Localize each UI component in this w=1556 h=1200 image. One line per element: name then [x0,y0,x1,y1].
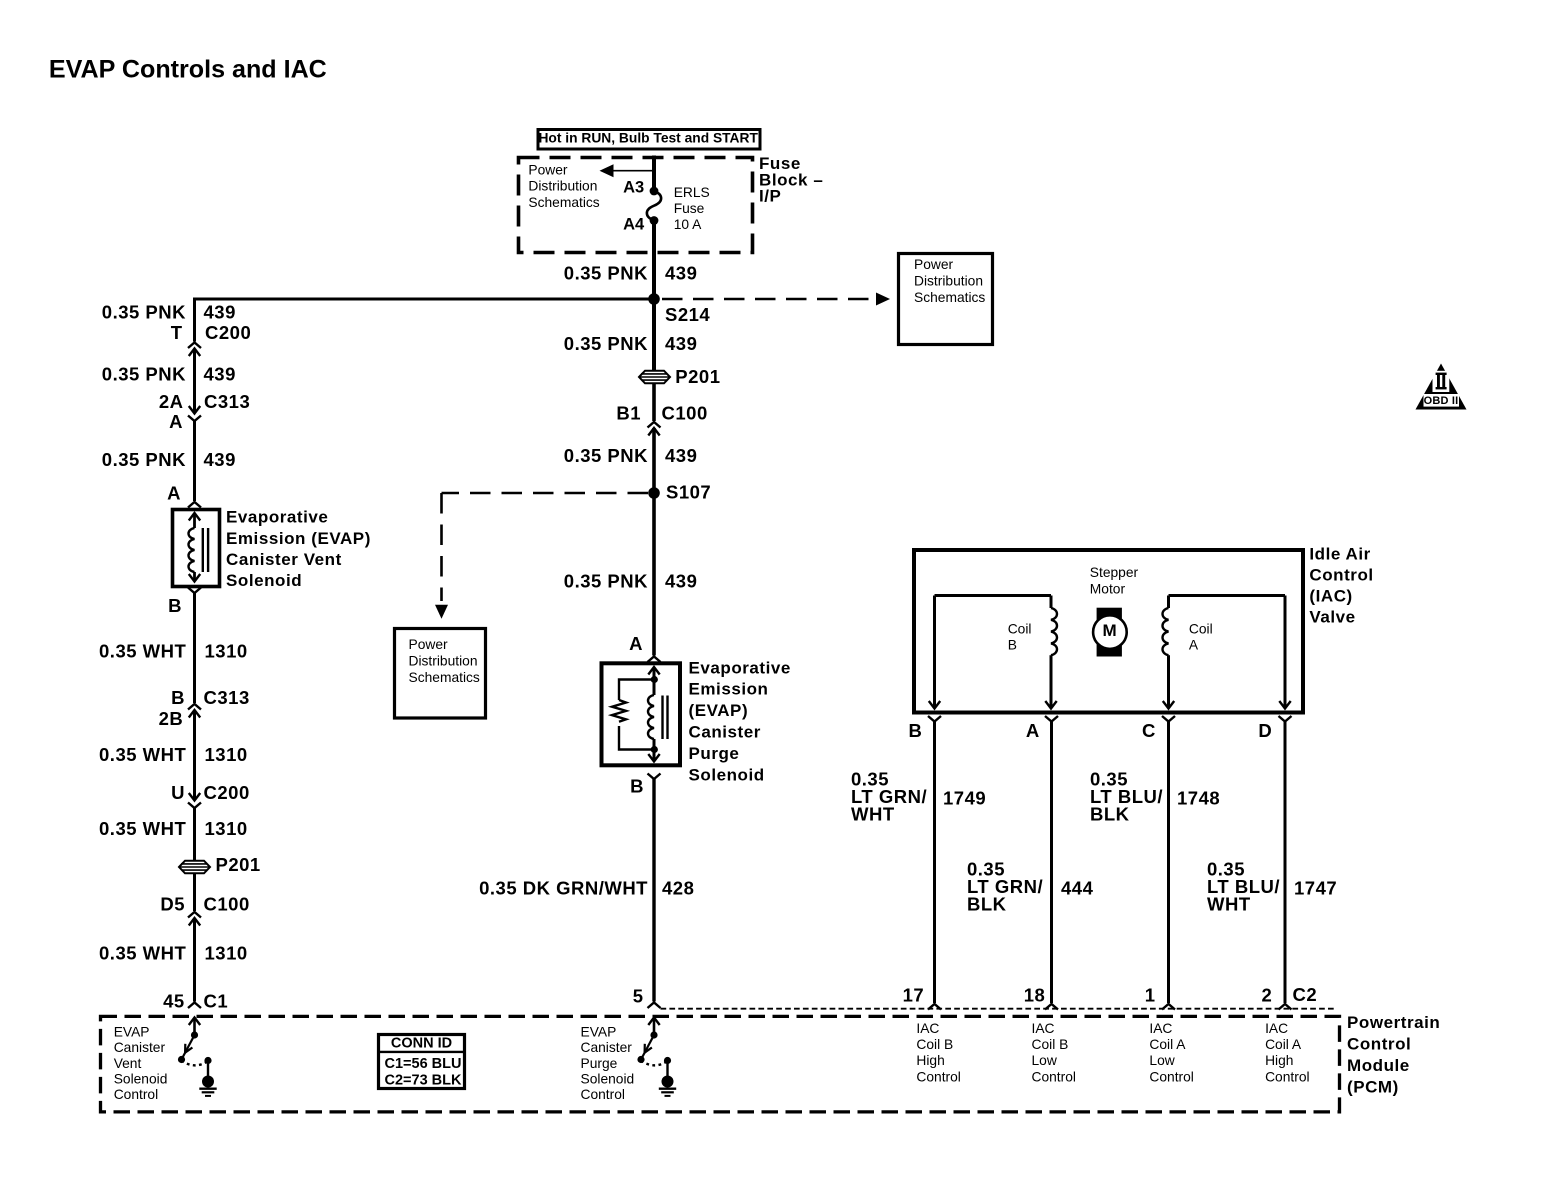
svg-text:IAC: IAC [1265,1021,1288,1036]
svg-text:444: 444 [1061,878,1094,899]
svg-text:Hot in RUN, Bulb Test and STAR: Hot in RUN, Bulb Test and START [538,131,758,146]
svg-text:0.35 DK GRN/WHT: 0.35 DK GRN/WHT [479,878,648,899]
svg-text:Evaporative: Evaporative [226,508,328,527]
svg-text:BLK: BLK [1090,804,1130,825]
svg-text:0.35 PNK: 0.35 PNK [102,364,186,385]
svg-text:D5: D5 [160,893,185,914]
svg-text:A: A [1026,720,1040,741]
svg-text:439: 439 [204,449,236,470]
svg-text:C1=56 BLU: C1=56 BLU [385,1056,462,1072]
svg-text:1310: 1310 [205,641,248,662]
svg-text:C313: C313 [204,687,250,708]
svg-text:T: T [171,322,183,343]
svg-text:IAC: IAC [1149,1021,1172,1036]
svg-text:C1: C1 [204,991,229,1012]
svg-text:WHT: WHT [851,804,895,825]
svg-text:439: 439 [665,263,697,284]
svg-text:439: 439 [665,570,697,591]
svg-text:High: High [916,1053,944,1068]
svg-text:Control: Control [916,1069,960,1084]
svg-text:Idle Air: Idle Air [1309,545,1370,564]
svg-text:P201: P201 [675,366,720,387]
svg-text:0.35 PNK: 0.35 PNK [564,570,648,591]
svg-text:Coil B: Coil B [1032,1037,1069,1052]
svg-text:Solenoid: Solenoid [114,1071,168,1086]
svg-text:Power: Power [528,162,568,177]
svg-text:Coil B: Coil B [916,1037,953,1052]
svg-text:Schematics: Schematics [914,290,985,305]
svg-text:Emission (EVAP): Emission (EVAP) [226,529,371,548]
svg-text:S214: S214 [665,304,710,325]
svg-text:Solenoid: Solenoid [226,571,302,590]
svg-text:1310: 1310 [205,943,248,964]
svg-text:Power: Power [409,637,449,652]
svg-text:OBD II: OBD II [1424,395,1459,407]
svg-text:Fuse: Fuse [674,201,705,216]
svg-text:B: B [1008,637,1017,652]
svg-text:ERLS: ERLS [674,185,710,200]
svg-text:CONN ID: CONN ID [391,1036,452,1052]
svg-text:1748: 1748 [1177,788,1220,809]
svg-text:Low: Low [1149,1053,1174,1068]
svg-text:2: 2 [1262,985,1273,1006]
svg-text:A: A [169,411,183,432]
svg-text:BLK: BLK [967,894,1007,915]
svg-text:45: 45 [163,991,185,1012]
svg-text:Canister: Canister [114,1040,166,1055]
svg-text:I/P: I/P [759,187,781,206]
svg-text:0.35 PNK: 0.35 PNK [102,449,186,470]
svg-text:Canister: Canister [581,1040,633,1055]
svg-text:Solenoid: Solenoid [581,1071,635,1086]
svg-text:428: 428 [662,878,694,899]
svg-text:Control: Control [1347,1035,1411,1054]
svg-text:U: U [171,782,185,803]
svg-text:1: 1 [1145,985,1156,1006]
svg-text:EVAP: EVAP [581,1025,617,1040]
svg-text:Control: Control [114,1087,158,1102]
svg-text:Coil A: Coil A [1149,1037,1186,1052]
svg-text:Control: Control [1149,1069,1193,1084]
svg-text:Stepper: Stepper [1090,565,1139,580]
svg-text:Purge: Purge [581,1056,618,1071]
svg-text:Purge: Purge [689,744,740,763]
svg-text:EVAP: EVAP [114,1025,150,1040]
svg-text:Motor: Motor [1090,582,1126,597]
svg-text:A4: A4 [623,216,645,234]
svg-text:17: 17 [903,985,925,1006]
svg-text:1310: 1310 [205,818,248,839]
svg-text:Distribution: Distribution [528,179,597,194]
svg-text:439: 439 [204,364,236,385]
svg-text:Valve: Valve [1309,607,1355,626]
svg-text:Control: Control [1309,566,1373,585]
svg-text:M: M [1103,621,1118,640]
svg-text:Coil: Coil [1189,622,1213,637]
svg-text:1747: 1747 [1294,878,1337,899]
svg-text:Control: Control [1032,1069,1076,1084]
svg-text:B: B [909,720,923,741]
svg-text:High: High [1265,1053,1293,1068]
svg-text:IAC: IAC [1032,1021,1055,1036]
svg-text:5: 5 [633,986,644,1007]
svg-text:EVAP Controls and IAC: EVAP Controls and IAC [49,56,327,84]
svg-text:Vent: Vent [114,1056,142,1071]
svg-text:0.35 WHT: 0.35 WHT [99,641,186,662]
svg-text:Powertrain: Powertrain [1347,1013,1440,1032]
svg-text:S107: S107 [666,482,711,503]
svg-text:Control: Control [1265,1069,1309,1084]
svg-text:Control: Control [581,1087,625,1102]
svg-text:0.35 PNK: 0.35 PNK [102,302,186,323]
svg-text:10 A: 10 A [674,217,702,232]
svg-text:Distribution: Distribution [914,274,983,289]
svg-text:C2: C2 [1293,984,1318,1005]
svg-text:0.35 PNK: 0.35 PNK [564,333,648,354]
svg-text:Schematics: Schematics [409,670,480,685]
svg-text:1749: 1749 [943,788,986,809]
svg-text:C200: C200 [205,322,251,343]
svg-text:D: D [1258,720,1272,741]
svg-text:IAC: IAC [916,1021,939,1036]
svg-text:0.35 WHT: 0.35 WHT [99,744,186,765]
svg-text:A: A [1189,637,1199,652]
svg-text:1310: 1310 [205,744,248,765]
svg-text:Module: Module [1347,1056,1410,1075]
svg-text:Solenoid: Solenoid [689,765,765,784]
svg-text:18: 18 [1024,985,1046,1006]
svg-text:Low: Low [1032,1053,1057,1068]
svg-text:2B: 2B [159,708,184,729]
svg-text:Power: Power [914,257,954,272]
svg-text:B1: B1 [616,403,641,424]
svg-text:Distribution: Distribution [409,654,478,669]
svg-text:Canister: Canister [689,723,761,742]
svg-text:Schematics: Schematics [528,195,599,210]
svg-text:A: A [167,483,181,504]
svg-text:C100: C100 [204,893,250,914]
svg-text:A: A [629,633,643,654]
svg-text:439: 439 [665,333,697,354]
svg-text:2A: 2A [159,391,184,412]
svg-text:C: C [1142,720,1156,741]
svg-text:C313: C313 [204,391,250,412]
svg-text:0.35 WHT: 0.35 WHT [99,943,186,964]
svg-text:439: 439 [204,302,236,323]
svg-text:Emission: Emission [689,680,769,699]
svg-text:(PCM): (PCM) [1347,1078,1399,1097]
svg-text:B: B [630,776,644,797]
svg-text:Canister Vent: Canister Vent [226,550,342,569]
svg-text:A3: A3 [623,179,644,197]
svg-text:C2=73 BLK: C2=73 BLK [385,1072,462,1088]
svg-text:B: B [171,687,185,708]
svg-text:Coil: Coil [1008,622,1032,637]
svg-text:Evaporative: Evaporative [689,658,791,677]
svg-text:0.35 WHT: 0.35 WHT [99,818,186,839]
svg-text:0.35 PNK: 0.35 PNK [564,263,648,284]
svg-text:Coil A: Coil A [1265,1037,1302,1052]
svg-text:P201: P201 [216,854,261,875]
svg-text:439: 439 [665,445,697,466]
svg-text:0.35 PNK: 0.35 PNK [564,445,648,466]
svg-text:C200: C200 [204,782,250,803]
svg-text:(IAC): (IAC) [1309,587,1352,606]
svg-text:B: B [168,595,182,616]
svg-text:WHT: WHT [1207,894,1251,915]
svg-text:(EVAP): (EVAP) [689,701,749,720]
svg-text:C100: C100 [662,403,708,424]
